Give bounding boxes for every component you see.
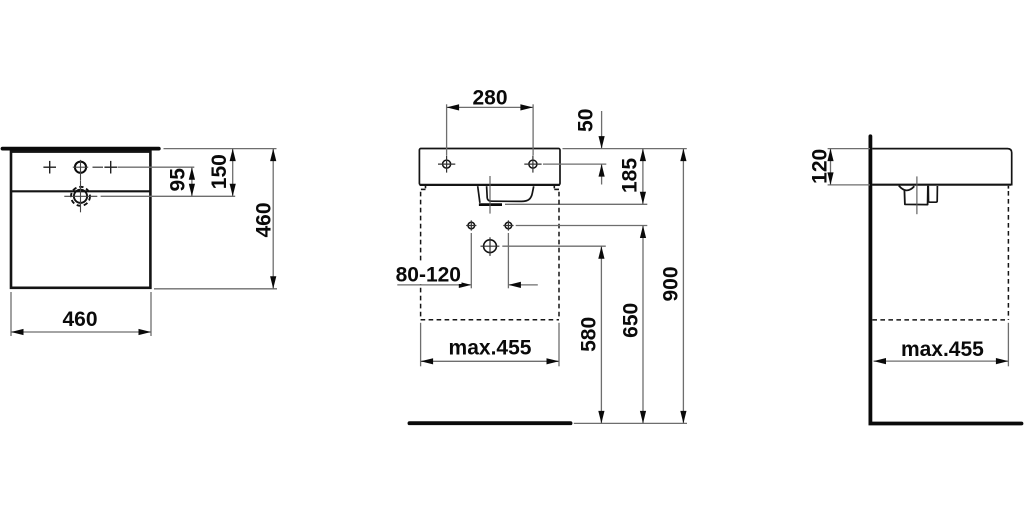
- drain hole circle: [74, 190, 87, 203]
- extension lines for 120: [828, 148, 870, 150]
- extension lines for 280: [446, 104, 448, 155]
- drain hidden circle (dashed): [71, 187, 90, 206]
- dimension max.455 middle line: [421, 360, 559, 362]
- extension line from tap centerline to 95 dim: [118, 166, 195, 168]
- basin front outline: [419, 149, 560, 185]
- svg-text:95: 95: [167, 168, 190, 192]
- optional tap hole cross left: [43, 166, 56, 168]
- dimension 150 line: [232, 149, 234, 197]
- hidden pedestal bottom edge (dashed): [421, 319, 559, 321]
- siphon centerline (side): [916, 176, 918, 214]
- tap hole centerline vertical: [80, 160, 82, 181]
- dimension 650 line: [642, 226, 644, 424]
- hidden pedestal left edge (dashed): [420, 192, 422, 320]
- hidden pedestal step right tick: [553, 186, 555, 189]
- basin front bottom edge: [420, 184, 560, 186]
- extension line bottom right of basin: [150, 292, 152, 336]
- dimension 50 lower tail: [601, 164, 603, 184]
- extension vertical for max.455 right: [1007, 323, 1009, 367]
- svg-text:50: 50: [574, 109, 597, 132]
- dimension 185 line: [642, 149, 644, 205]
- svg-text:80-120: 80-120: [396, 263, 461, 286]
- svg-text:280: 280: [472, 86, 507, 109]
- dimension 120 line: [830, 149, 832, 185]
- dimension 900 line: [682, 149, 684, 424]
- extension line from basin top edge to 900 dim: [563, 148, 687, 150]
- basin outline (top view): [11, 152, 150, 288]
- basin inner front edge line: [12, 190, 150, 192]
- extension line from siphon bottom to 185 dim: [505, 203, 647, 205]
- dimension 460 bottom line: [11, 331, 151, 333]
- svg-text:max.455: max.455: [901, 338, 984, 361]
- svg-text:460: 460: [252, 202, 275, 237]
- extension line from rim bar to 460 dim: [164, 148, 277, 150]
- tap hole centerline horizontal: [73, 166, 88, 168]
- siphon centerline (front): [489, 176, 491, 214]
- siphon outlet bottom (front, thick): [479, 203, 502, 206]
- svg-text:max.455: max.455: [449, 337, 532, 360]
- svg-text:650: 650: [620, 303, 643, 338]
- extension line from hole centerline to 50 dim: [543, 163, 606, 165]
- svg-text:460: 460: [62, 308, 97, 331]
- extension line bottom left of basin: [10, 292, 12, 336]
- svg-text:900: 900: [660, 266, 683, 301]
- hidden pedestal step right dash: [554, 188, 559, 190]
- floor line (front view): [410, 421, 571, 425]
- wall rim bar (top view): [3, 147, 159, 151]
- dimension 50 upper tail: [601, 111, 603, 149]
- dimension 580 line: [600, 246, 602, 423]
- optional tap hole cross right: [104, 166, 117, 168]
- hidden pedestal step left tick: [425, 186, 427, 189]
- label 80-120 halo: [396, 263, 462, 285]
- dimension 80-120 right line: [509, 284, 538, 286]
- siphon outlet box (side): [904, 186, 928, 205]
- siphon outer left edge (front): [478, 186, 480, 203]
- basin side bottom edge: [872, 184, 1011, 186]
- hidden depth step tick: [1007, 186, 1009, 189]
- extension from drain outlet to 580 dim: [502, 245, 606, 247]
- siphon bowl inner profile (front): [487, 186, 534, 201]
- hidden depth bottom (dashed): [872, 319, 1008, 321]
- extension line from drain centerline to 150 dim: [101, 195, 236, 197]
- dimension 460 vertical line: [272, 149, 274, 289]
- wall fixing hole right: [505, 222, 512, 229]
- svg-text:120: 120: [808, 149, 831, 184]
- svg-text:150: 150: [208, 154, 231, 189]
- floor extension line: [574, 422, 687, 424]
- svg-text:185: 185: [619, 158, 642, 193]
- extension verticals for 80-120: [470, 233, 472, 288]
- dimension max.455 right line: [874, 360, 1009, 362]
- dimension 95 line: [191, 167, 193, 196]
- centerline dash right of tap: [93, 166, 104, 168]
- siphon bowl arc (side): [899, 186, 915, 191]
- svg-text:580: 580: [577, 317, 600, 352]
- drain centerline horizontal: [64, 195, 97, 197]
- drain centerline vertical: [80, 181, 82, 213]
- tap hole circle: [75, 162, 86, 173]
- mounting hole left (tap deck): [443, 160, 451, 168]
- dimension 80-120 left line: [397, 284, 470, 286]
- wall and floor lines (side view): [870, 136, 1021, 423]
- hidden depth line right (dashed): [1007, 191, 1009, 320]
- extension from fixing hole to 650 dim: [516, 225, 648, 227]
- hidden pedestal step left dash: [421, 188, 426, 190]
- dimension 280 line: [447, 106, 533, 108]
- hidden pedestal right edge (dashed): [558, 192, 560, 320]
- wall fixing hole left: [468, 222, 475, 229]
- siphon right chamber (side): [928, 186, 937, 202]
- mounting hole right (tap deck): [529, 160, 537, 168]
- extension verticals for max.455 middle: [420, 323, 422, 367]
- drain outlet circle (front): [484, 240, 497, 253]
- extension line from basin bottom right corner: [154, 288, 277, 290]
- basin side profile: [872, 149, 1012, 185]
